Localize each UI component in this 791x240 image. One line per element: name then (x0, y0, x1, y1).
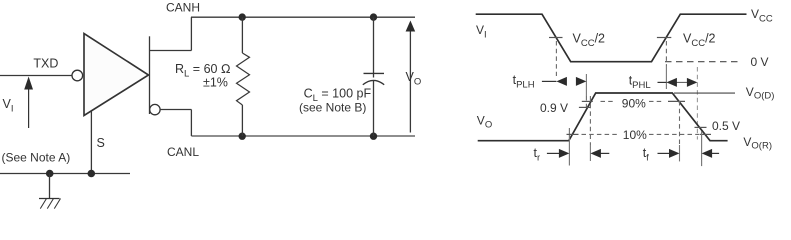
label VO(D) (746, 85, 775, 102)
wire CANH rail (191, 16, 415, 18)
node junction CANH-capacitor (370, 13, 377, 20)
svg-text:VI: VI (3, 97, 14, 115)
svg-text:VCC/2: VCC/2 (573, 31, 606, 49)
dashed 90% level line (601, 100, 663, 102)
wire TXD input (0, 75, 72, 77)
wire CANL rail (191, 135, 415, 137)
svg-text:10%: 10% (623, 128, 647, 142)
wire output bar (149, 36, 151, 114)
tick VCC/2 on falling edge (549, 37, 563, 39)
label VI (timing) (476, 23, 487, 40)
capacitor CL (363, 17, 384, 136)
wire ground rail (0, 173, 130, 175)
tick 0.5V on falling edge (695, 126, 707, 128)
label RL = 60 ohm +-1% (175, 62, 231, 90)
tick 90% on rising edge (582, 100, 593, 102)
svg-text:CANH: CANH (166, 1, 200, 15)
label VCC right (751, 7, 773, 24)
tf measurement arrows (643, 146, 719, 164)
svg-text:tPLH: tPLH (513, 73, 535, 91)
tPLH measurement arrows (513, 73, 587, 91)
waveform VO (478, 93, 728, 141)
tick 0.9V on rising edge (579, 106, 591, 108)
pin S (91, 111, 104, 174)
label VO with measurement arrow (406, 21, 422, 133)
svg-text:(See Note A): (See Note A) (2, 151, 71, 165)
input bubble on driver (72, 70, 83, 81)
svg-text:0.9 V: 0.9 V (540, 101, 568, 115)
node junction CANL-resistor (239, 133, 246, 140)
label VO (timing) (477, 113, 492, 130)
svg-text:S: S (97, 136, 105, 150)
tick 10% on falling edge (700, 133, 711, 135)
node junction on ground rail (46, 170, 54, 178)
waveform VI (476, 14, 747, 62)
marker tr right boundary (90% crossing) (589, 96, 591, 161)
label CANL (167, 145, 199, 159)
marker tr left boundary (568, 128, 570, 166)
label VI with arrow (3, 77, 34, 129)
svg-text:TXD: TXD (33, 57, 58, 71)
svg-text:(see Note B): (see Note B) (299, 101, 366, 115)
svg-text:VO(D): VO(D) (746, 85, 775, 102)
tick 10% on rising edge (567, 133, 579, 135)
svg-text:tf: tf (643, 146, 649, 164)
marker at 0.5V crossing (tPHL right boundary) (696, 67, 698, 140)
label 0.5 V (712, 119, 740, 133)
svg-text:tPHL: tPHL (629, 74, 651, 92)
node junction CANH-resistor (239, 13, 246, 20)
svg-text:VO: VO (477, 113, 492, 130)
thin VO(D) level line to label (674, 92, 735, 94)
label CL = 100 pF (see Note B) (299, 87, 371, 115)
label (See Note A) (2, 151, 71, 165)
wire CANH branch (150, 17, 192, 50)
svg-text:VCC: VCC (751, 7, 773, 24)
svg-text:VO(R): VO(R) (743, 135, 772, 152)
label VCC/2 (fall) (573, 31, 606, 49)
svg-text:VO: VO (406, 70, 422, 88)
svg-text:0 V: 0 V (751, 55, 769, 69)
svg-text:90%: 90% (622, 97, 646, 111)
label 90% (622, 97, 646, 111)
svg-text:tr: tr (534, 146, 541, 164)
dashed 10% level line (582, 133, 700, 135)
label VCC/2 (rise) (683, 31, 716, 49)
output bubble CANL (150, 104, 160, 114)
marker at 0.9V crossing (tPLH right boundary) (585, 74, 587, 108)
wire CANL branch (160, 110, 191, 137)
marker tf right boundary (10% fall crossing) (701, 131, 703, 166)
label VO(R) (743, 135, 772, 152)
ground (39, 174, 61, 209)
resistor RL (237, 17, 250, 136)
tick VCC/2 on rising edge (657, 37, 671, 39)
svg-text:0.5 V: 0.5 V (712, 119, 740, 133)
node junction S to ground rail (88, 170, 96, 178)
label CANH (166, 1, 200, 15)
svg-text:±1%: ±1% (203, 76, 228, 90)
op-amp U1 driver triangle (84, 34, 149, 116)
svg-text:VCC/2: VCC/2 (683, 31, 716, 49)
label TXD (33, 57, 58, 71)
dashed marker at VI fall crossing (555, 41, 557, 76)
label 0 V (751, 55, 769, 69)
svg-text:CANL: CANL (167, 145, 199, 159)
marker tf left boundary (90% fall crossing) (679, 101, 681, 161)
tPHL measurement arrows (629, 74, 698, 92)
tr measurement arrows (534, 146, 610, 164)
dashed 0V level line (665, 61, 741, 63)
marker at VI rise crossing (tPHL left boundary) (665, 41, 667, 89)
label 0.9 V (540, 101, 568, 115)
svg-text:VI: VI (476, 23, 487, 40)
label 10% (623, 128, 647, 142)
node junction CANL-capacitor (370, 133, 377, 140)
tick 90% on falling edge (668, 100, 685, 102)
